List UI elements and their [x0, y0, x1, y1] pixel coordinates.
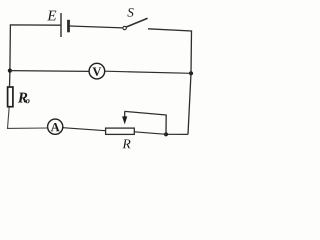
label R [122, 139, 130, 148]
wire: right junction to bottom-right corner [188, 73, 191, 134]
rheostat slider arrowhead [122, 116, 127, 124]
rheostat slider arrow stem [124, 111, 126, 117]
label R0 [18, 93, 27, 103]
ammeter A circle [48, 119, 63, 134]
wire: rheostat left to ammeter right [63, 128, 106, 131]
label E [47, 11, 56, 21]
resistor R0 box [8, 87, 13, 107]
wire: slider to bottom junction [125, 111, 166, 134]
switch S pivot circle [123, 26, 126, 29]
voltmeter V letter [93, 68, 102, 76]
ammeter A letter [51, 123, 60, 131]
battery E short thick plate [67, 20, 70, 33]
wire: switch to top-right corner, down to right junction [148, 29, 192, 74]
wire: left junction to voltmeter [10, 70, 89, 73]
wire: R0 top to left junction [9, 71, 11, 87]
wire: battery to switch pivot [70, 26, 123, 28]
battery E long plate [60, 13, 62, 37]
voltmeter V circle [89, 63, 105, 79]
wire: ammeter left to bottom-left corner, up to R0 bottom [8, 107, 48, 129]
label R0 subscript [26, 99, 30, 103]
rheostat R body box [106, 128, 135, 134]
node: bottom junction [164, 132, 168, 136]
wire: voltmeter to right junction [105, 71, 191, 73]
node: right junction [189, 71, 193, 75]
switch S lever (open) [126, 18, 147, 27]
wire: top-left segment (battery left plate to top-left corner, down to left junction) [10, 25, 61, 71]
node: left junction [8, 69, 12, 73]
wire: bottom junction to rheostat right end [134, 132, 166, 135]
wire: bottom-right corner to bottom junction [166, 133, 188, 135]
label S [127, 8, 133, 17]
